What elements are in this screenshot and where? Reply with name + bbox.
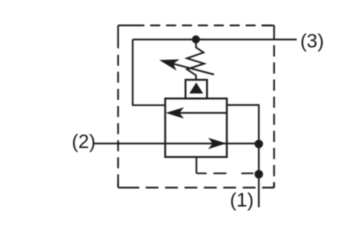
node junction port2/port1 bbox=[254, 140, 263, 149]
arrowhead right (main flow) bbox=[208, 138, 226, 149]
pilot poppet box bbox=[186, 80, 208, 99]
wire pilot top line to port 3 bbox=[133, 39, 297, 41]
node junction drain bbox=[254, 170, 263, 179]
svg-text:(2): (2) bbox=[72, 131, 96, 153]
enclosure dashed boundary top edge bbox=[118, 24, 274, 26]
arrowhead left (vent path) bbox=[166, 107, 184, 118]
enclosure dashed boundary right edge bbox=[273, 25, 275, 187]
enclosure dashed boundary bottom edge bbox=[118, 187, 274, 189]
wire internal relief path bbox=[176, 112, 227, 114]
pilot poppet triangle bbox=[189, 83, 203, 94]
wire drain dashed line bbox=[196, 172, 253, 174]
node dot on pilot line bbox=[192, 35, 200, 43]
spring adjustment arrow bbox=[159, 59, 214, 74]
valve body V1 bbox=[165, 99, 227, 158]
wire port 2 inlet line bbox=[94, 143, 258, 145]
enclosure dashed boundary left edge bbox=[117, 25, 119, 187]
svg-text:(1): (1) bbox=[230, 190, 254, 212]
wire drain stub bbox=[195, 157, 197, 173]
svg-text:(3): (3) bbox=[300, 31, 324, 53]
spring bbox=[187, 41, 204, 81]
wire vent loop left side bbox=[133, 40, 166, 106]
wire valve outlet upper right bbox=[227, 105, 259, 207]
